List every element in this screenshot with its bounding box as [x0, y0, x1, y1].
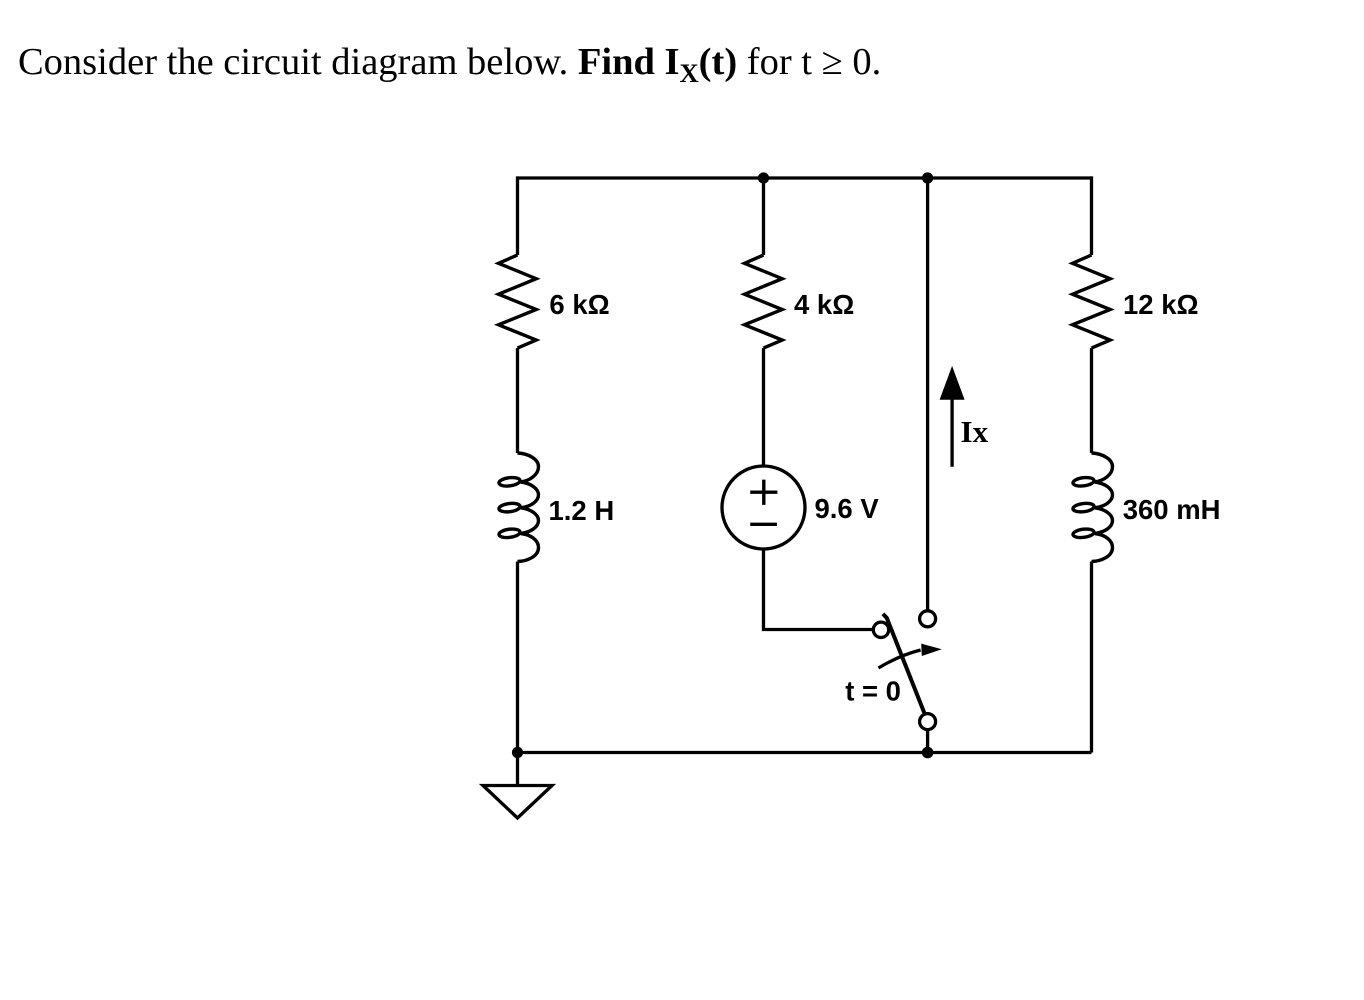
resistor R 6k zigzag	[499, 255, 537, 348]
voltage source plus sign	[750, 480, 777, 505]
resistor R 4k zigzag	[745, 255, 783, 348]
svg-text:Ix: Ix	[961, 414, 989, 449]
switch SW bottom contact circle	[920, 714, 936, 730]
inductor L 360mH loops	[1072, 476, 1094, 487]
title text	[18, 43, 881, 82]
svg-text:1.2 H: 1.2 H	[549, 495, 615, 526]
wire right branch mid	[1090, 348, 1093, 453]
wire left branch mid	[516, 348, 519, 453]
wire switch bottom stub	[926, 730, 929, 753]
wire left branch bottom	[516, 562, 519, 753]
node dot top switch	[922, 172, 933, 183]
inductor L 360mH bumps	[1092, 453, 1113, 562]
wire switch top branch	[926, 178, 929, 611]
node dot bottom left	[512, 747, 523, 758]
wire right branch bottom	[1090, 562, 1093, 753]
resistor R 12k zigzag	[1073, 255, 1111, 348]
wire mid branch top lead	[762, 178, 765, 255]
wire left branch top lead	[516, 176, 519, 255]
inductor L 1.2H bumps	[518, 453, 539, 562]
inductor L 1.2H loops	[498, 476, 520, 487]
svg-text:9.6 V: 9.6 V	[815, 493, 880, 524]
wire right branch top lead	[1090, 176, 1093, 255]
wire mid branch to source	[762, 348, 765, 466]
wire source bottom lead	[764, 549, 874, 630]
current arrow Ix shaft	[950, 399, 953, 467]
wire ground stub	[516, 753, 519, 786]
wire bottom bus	[518, 751, 1092, 754]
switch SW left contact circle	[873, 622, 888, 637]
current arrow Ix head	[940, 366, 965, 400]
svg-text:t = 0: t = 0	[845, 675, 901, 706]
switch actuation arc	[879, 650, 921, 668]
node dot top mid	[758, 172, 769, 183]
wire top bus	[518, 176, 1092, 179]
switch arc arrowhead	[921, 644, 942, 656]
node dot bottom switch	[922, 747, 934, 759]
svg-text:6 kΩ: 6 kΩ	[549, 289, 609, 320]
voltage source minus sign	[750, 523, 777, 526]
svg-text:4 kΩ: 4 kΩ	[794, 289, 854, 320]
voltage source V1 circle	[722, 466, 805, 549]
switch SW blade	[883, 614, 925, 714]
svg-text:12 kΩ: 12 kΩ	[1123, 289, 1199, 320]
switch SW top contact circle	[920, 611, 936, 627]
ground symbol triangle	[483, 786, 552, 819]
svg-text:360 mH: 360 mH	[1123, 494, 1221, 525]
